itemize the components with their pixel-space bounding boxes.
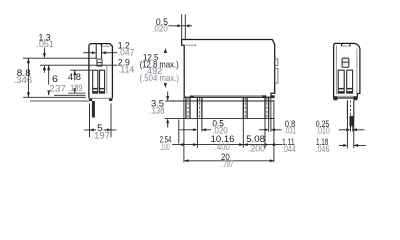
dim 5 extension left <box>89 104 91 138</box>
extension: pin3 left down <box>242 118 244 147</box>
right slot 2 bottom bars <box>347 88 352 90</box>
dim 0.25 line <box>339 129 365 131</box>
left view top notch floor <box>101 45 110 47</box>
svg-text:6: 6 <box>52 74 58 84</box>
middle foot left <box>190 96 194 98</box>
left view foot right <box>109 98 112 101</box>
svg-text:.046: .046 <box>316 144 330 154</box>
svg-text:.100: .100 <box>160 142 170 152</box>
svg-text:.189: .189 <box>68 83 83 93</box>
left view slot 1 <box>93 70 98 93</box>
middle pin 4 <box>265 98 269 119</box>
dim 4.8 shaft with arrows <box>74 70 76 93</box>
middle top-left notch floor <box>184 44 195 46</box>
svg-text:.051: .051 <box>37 39 54 49</box>
left view bottom edge <box>89 97 113 99</box>
middle right edge bump 1 <box>275 59 278 66</box>
right clinch square midline <box>342 61 349 63</box>
right body rounded top-left corner <box>334 43 336 45</box>
right pin <box>347 100 353 118</box>
right slot 1 <box>338 70 344 93</box>
dim row2 2.54/10.16/5.08 line <box>172 144 282 146</box>
extension: pin2 right down <box>201 118 203 131</box>
extension: pin2 left down <box>196 118 198 147</box>
left view slot 2 <box>100 70 105 93</box>
dim 1.3 lower arrow <box>43 70 45 73</box>
left view body rounded top-left corner <box>89 44 92 47</box>
extension: x178.8 <box>178 120 180 144</box>
dim 0.5 top: extension V2 <box>184 14 186 39</box>
extension line y95.3 <box>54 94 86 96</box>
left view clinch square <box>97 59 102 66</box>
right pin lower dark section <box>350 116 354 126</box>
right pin dashed center <box>350 100 352 131</box>
extension line A (top, y58.2) <box>23 57 96 59</box>
extension: body right edge down <box>273 100 275 162</box>
right clinch square <box>342 58 349 67</box>
svg-text:.138: .138 <box>150 105 165 115</box>
pin end line y118.4 <box>165 117 274 119</box>
svg-text:.400: .400 <box>215 142 230 152</box>
left view slot 1 bottom bars <box>93 88 98 90</box>
dim 20 line with arrows <box>184 160 274 162</box>
extension line B (y65.2) <box>40 64 117 66</box>
dim row1 0.8 <box>259 129 282 131</box>
right foot right <box>354 96 358 100</box>
dim 0.5 top line with arrows <box>169 25 192 27</box>
dim 1.18 line <box>339 144 366 146</box>
left view foot left <box>89 98 92 101</box>
svg-text:(.504 max.): (.504 max.) <box>140 73 180 83</box>
extension line y97.3 <box>23 96 86 98</box>
extension: body left edge down <box>183 97 185 162</box>
svg-text:.044: .044 <box>282 144 296 154</box>
svg-text:.114: .114 <box>118 65 135 75</box>
dim 1.2 line right tail <box>105 52 117 54</box>
dim 1.2 line left tail <box>83 52 92 54</box>
svg-text:.010: .010 <box>316 126 330 136</box>
left view terminal verticals at top <box>96 44 101 59</box>
right foot left <box>334 96 338 100</box>
svg-text:.237: .237 <box>47 84 67 94</box>
left view body outline <box>89 44 113 99</box>
middle right edge bump 2 <box>275 69 278 84</box>
left inner wall right <box>106 66 108 94</box>
dim row1 0.5 (pin width) <box>179 129 211 131</box>
left view slot 2 bottom bars <box>100 88 105 90</box>
left view pin <box>92 101 95 118</box>
svg-text:.031: .031 <box>284 126 296 136</box>
svg-text:.197: .197 <box>92 130 111 140</box>
middle pin 2 <box>197 98 202 119</box>
right pin extensions <box>350 118 352 131</box>
dim 6 shaft with arrows <box>48 65 50 95</box>
svg-text:4.8: 4.8 <box>68 72 81 82</box>
seating line y101 <box>165 100 274 102</box>
middle pin 3 <box>243 98 247 119</box>
extension: step edge down <box>270 96 272 132</box>
middle pin 1 <box>186 98 190 119</box>
right slot 1 bottom bars <box>339 88 344 90</box>
extension: pin4 right down <box>268 118 270 131</box>
right slot 2 <box>347 70 353 93</box>
middle body outline <box>182 40 275 98</box>
right bottom recess <box>337 95 353 97</box>
svg-text:.020: .020 <box>152 24 168 34</box>
dim 0.5 top: extension V1 <box>181 14 183 40</box>
right inner wall left <box>335 46 337 95</box>
svg-text:.047: .047 <box>118 48 135 58</box>
dim 8.8 shaft with arrows <box>27 58 29 97</box>
dim 3.5 arrows <box>167 92 169 128</box>
middle bottom edge recess <box>194 95 266 97</box>
dim row2 arrowheads <box>179 143 183 146</box>
dim 5 line with outside arrows <box>84 129 116 131</box>
dim 12.5 arrowheads <box>164 48 167 53</box>
extension line y101 (body foot) <box>30 100 89 102</box>
extension: pin4 left down <box>264 118 266 148</box>
right body outline <box>334 43 360 98</box>
svg-text:.346: .346 <box>14 75 32 85</box>
right top notch floor <box>342 45 350 47</box>
svg-text:.200: .200 <box>248 143 265 153</box>
middle bottom right corner foot <box>271 95 275 98</box>
dim 5 extension right <box>110 104 112 138</box>
svg-text:.787: .787 <box>222 159 234 169</box>
extension line slot-bottom (y93.1) <box>68 92 86 94</box>
left view clinch square midline <box>97 62 102 64</box>
extension line C (slot top, y70.2) <box>70 69 92 71</box>
right inner wall right <box>356 49 358 94</box>
middle foot right <box>262 96 266 98</box>
dim 1.3 upper arrow <box>43 48 45 54</box>
